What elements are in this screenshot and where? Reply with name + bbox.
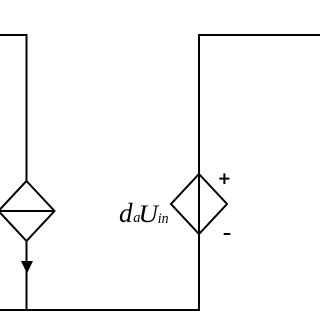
wire right vertical (top) [198, 34, 200, 174]
wire top-left horizontal [0, 34, 27, 36]
wire left vertical (top) [26, 34, 28, 181]
label - (negative terminal) [224, 233, 231, 235]
current direction arrowhead [21, 261, 33, 274]
wire bottom horizontal [0, 309, 200, 311]
controlled voltage source (diamond) [171, 174, 227, 234]
svg-text:in: in [158, 211, 169, 227]
wire left vertical (bottom) [26, 241, 28, 310]
label daUin (source value) [119, 198, 169, 228]
label + (positive terminal) [219, 173, 229, 184]
wire right vertical (bottom) [198, 234, 200, 311]
svg-text:d: d [119, 198, 133, 228]
controlled current source I1 (diamond) [0, 181, 55, 241]
wire top-right horizontal [198, 34, 320, 36]
